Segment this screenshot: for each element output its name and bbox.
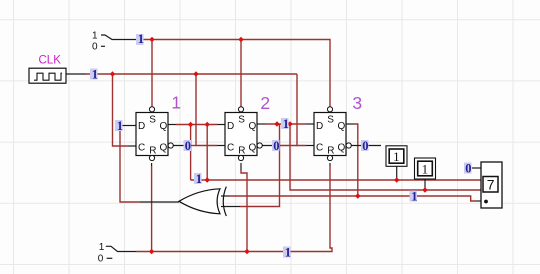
svg-text:1: 1 (138, 32, 144, 46)
svg-text:0: 0 (185, 139, 191, 153)
svg-text:1: 1 (99, 242, 105, 253)
svg-text:1: 1 (285, 245, 291, 259)
svg-text:3: 3 (352, 93, 362, 113)
svg-text:CLK: CLK (39, 55, 62, 67)
svg-text:1: 1 (117, 119, 123, 133)
svg-text:1: 1 (283, 117, 289, 131)
svg-text:0: 0 (465, 161, 471, 175)
svg-text:1: 1 (92, 67, 98, 81)
svg-text:1: 1 (411, 189, 417, 203)
svg-text:2: 2 (260, 93, 270, 113)
svg-text:7: 7 (487, 177, 495, 193)
svg-text:0: 0 (92, 42, 98, 53)
svg-text:1: 1 (92, 31, 98, 42)
svg-text:0: 0 (362, 139, 368, 153)
svg-text:1: 1 (422, 162, 429, 177)
svg-text:1: 1 (393, 149, 400, 164)
svg-text:1: 1 (171, 93, 181, 113)
svg-text:0: 0 (273, 139, 279, 153)
svg-text:1: 1 (196, 172, 202, 186)
svg-text:0: 0 (98, 254, 104, 265)
